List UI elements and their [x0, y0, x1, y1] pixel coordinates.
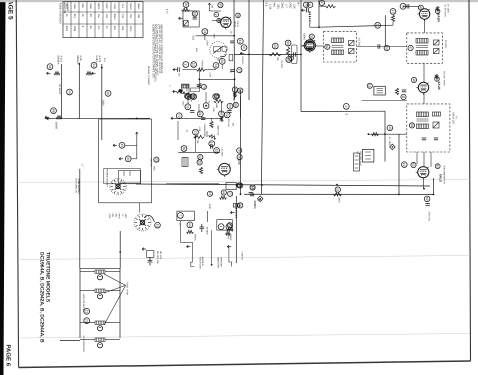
- label 2.2K: [209, 73, 212, 78]
- dial lamp lead 3: [104, 285, 126, 325]
- svg-text:61: 61: [435, 77, 439, 81]
- label L8: [356, 152, 359, 155]
- wire H4: [301, 110, 385, 112]
- filter drop 1: [180, 221, 192, 243]
- label record jack: [359, 152, 362, 167]
- svg-text:30: 30: [184, 3, 188, 7]
- 6BA6 input wire: [301, 45, 304, 47]
- grid ref: [375, 22, 381, 28]
- avc mid ref: [250, 185, 255, 190]
- svg-text:199K: 199K: [89, 3, 92, 9]
- label L7: [81, 164, 84, 167]
- rf res lead: [392, 22, 394, 25]
- label right of V1: [254, 201, 257, 208]
- bass resistor left: [179, 89, 182, 92]
- filter drop 2: [192, 242, 194, 262]
- heater box top: [80, 268, 120, 270]
- T4 core: [417, 119, 429, 121]
- svg-text:71.1: 71.1: [121, 3, 124, 8]
- svg-text:15: 15: [368, 84, 372, 88]
- label amplifier: [217, 257, 220, 268]
- audio wires verticals: [178, 92, 241, 152]
- svg-text:1.5V220: 1.5V220: [66, 2, 69, 12]
- rf amp 6AB4: [417, 9, 429, 21]
- heater wire 8: [108, 339, 120, 341]
- svg-text:AMPLIFIER: AMPLIFIER: [217, 257, 220, 268]
- switch ref S3: [154, 157, 159, 162]
- T1 trimmer 2: [434, 49, 440, 54]
- svg-text:63: 63: [410, 124, 414, 128]
- svg-text:SPEAKER: SPEAKER: [219, 257, 222, 267]
- T2 to T1 wire: [357, 46, 407, 48]
- svg-text:11: 11: [155, 224, 159, 228]
- filter right L: [229, 247, 232, 267]
- svg-text:SOME MODELS: SOME MODELS: [77, 178, 80, 194]
- grid ref small 2: [217, 18, 221, 22]
- resistor R1 ref: [183, 2, 189, 8]
- model list: [39, 252, 45, 343]
- T4 lead right: [430, 152, 432, 167]
- svg-text:+125V: +125V: [254, 201, 257, 208]
- loop lead hatched: [309, 12, 311, 24]
- label RATIO DET: [452, 112, 455, 125]
- T4 ref: [409, 123, 414, 128]
- 6AL5 label ref: [435, 164, 440, 169]
- socket ref D: [51, 108, 57, 114]
- speaker plug pins: [355, 156, 359, 168]
- T2 core: [332, 45, 344, 47]
- T2 winding 2: [332, 50, 344, 55]
- audio ref p: [237, 155, 242, 160]
- svg-text:56: 56: [238, 204, 242, 208]
- svg-text:A-102: A-102: [98, 56, 101, 63]
- loop exit wire: [310, 23, 319, 27]
- svg-text:16: 16: [412, 78, 416, 82]
- svg-text:44: 44: [222, 191, 226, 195]
- L7 drop wire: [79, 169, 81, 269]
- rf res a: [391, 15, 394, 22]
- coil on V1 low: [233, 204, 239, 208]
- svg-text:47: 47: [320, 1, 324, 5]
- svg-text:7: 7: [178, 215, 182, 217]
- svg-text:23: 23: [85, 310, 89, 314]
- audio cap i: [201, 118, 205, 120]
- label FM AM: [241, 56, 244, 63]
- T4 winding 1: [417, 112, 429, 117]
- label 6AW8 lower: [54, 122, 57, 129]
- svg-text:4.7: 4.7: [285, 4, 288, 8]
- socket ref C: [91, 62, 97, 68]
- svg-text:TWO POINT: TWO POINT: [199, 257, 202, 270]
- switch assembly box: [99, 119, 152, 203]
- label DISCRIMINATOR: [442, 166, 445, 185]
- label SET IN: [149, 158, 152, 166]
- svg-text:4: 4: [308, 4, 312, 6]
- svg-text:680K: 680K: [215, 103, 218, 109]
- svg-text:19: 19: [192, 63, 196, 67]
- label tube heaters: [126, 282, 129, 295]
- vertical wire V2: [248, 0, 250, 100]
- label 6AB4: [437, 14, 441, 22]
- filament wire C: [101, 64, 103, 140]
- svg-text:89CV: 89CV: [113, 14, 116, 20]
- label 1 meg vol: [217, 125, 220, 137]
- label 15K: [196, 140, 199, 144]
- svg-text:MC: MC: [97, 26, 100, 30]
- B plus cap: [250, 194, 254, 196]
- svg-text:20: 20: [85, 319, 89, 323]
- tone wire down: [218, 58, 222, 69]
- rj ref 2: [402, 162, 408, 168]
- svg-text:.0047: .0047: [182, 101, 185, 107]
- cap ref C2: [192, 11, 197, 16]
- table caption: [59, 3, 62, 25]
- B+ bus wire: [244, 193, 434, 195]
- rf ref b: [400, 3, 406, 9]
- plate wire: [204, 34, 206, 40]
- audio resistor c: [233, 92, 236, 97]
- bass ref 4: [215, 94, 220, 99]
- resistor R40: [226, 228, 233, 231]
- svg-text:470K: 470K: [198, 127, 201, 132]
- svg-text:21: 21: [336, 188, 340, 192]
- tone drop wire: [198, 70, 200, 84]
- svg-text:CONDENSER: CONDENSER: [203, 124, 206, 138]
- vertical wire V1 mid: [240, 90, 242, 194]
- svg-text:47K 1W: 47K 1W: [227, 119, 230, 128]
- volume control R7: [210, 42, 226, 58]
- filter ref 3: [218, 224, 224, 230]
- input box: [183, 11, 199, 27]
- page 6 right border: [469, 0, 471, 361]
- svg-text:86C5: 86C5: [97, 3, 100, 9]
- T1 trimmer 1: [434, 40, 440, 45]
- svg-text:25: 25: [198, 161, 202, 165]
- tube label C2: [98, 56, 101, 63]
- vertical wire V1 top: [233, 0, 236, 100]
- comp ref V1 low: [238, 88, 243, 93]
- filament bus wire: [45, 117, 150, 119]
- svg-text:6U8 A: 6U8 A: [95, 56, 98, 63]
- label 1.5mg: [227, 233, 230, 240]
- audio ref e: [203, 103, 209, 109]
- svg-text:8301: 8301: [65, 26, 68, 32]
- T1 core: [416, 46, 428, 48]
- svg-text:10.7MC: 10.7MC: [358, 38, 361, 47]
- heater wire 6: [108, 322, 120, 324]
- 6BA6 ref: [309, 34, 314, 39]
- svg-text:6.8K: 6.8K: [212, 108, 215, 113]
- heater box right: [119, 269, 121, 338]
- svg-text:1 MEG: 1 MEG: [193, 234, 196, 241]
- tone in cap: [178, 67, 180, 71]
- filter bottom L: [191, 262, 195, 266]
- svg-text:SW1: SW1: [152, 166, 155, 172]
- SW1B stub wire: [139, 203, 141, 213]
- AVC bus wire: [136, 184, 430, 186]
- label 40 MFD: [205, 227, 208, 235]
- svg-text:TREBLE: TREBLE: [201, 60, 204, 69]
- heater V3: [92, 321, 108, 331]
- treble resistor: [197, 68, 205, 71]
- record jack drop wire: [384, 111, 386, 161]
- svg-text:62: 62: [425, 197, 429, 201]
- svg-text:6AB47025: 6AB47025: [63, 2, 66, 14]
- label SW1: [152, 166, 155, 172]
- svg-text:1: 1: [184, 64, 188, 66]
- on-off arrow: [142, 248, 146, 251]
- label 220K: [213, 34, 216, 40]
- label 4.7K by notes: [166, 9, 169, 14]
- heater box left: [79, 269, 81, 338]
- audio extra label 2: [198, 127, 201, 132]
- label H7: [178, 223, 181, 227]
- audio ref AF: [209, 141, 215, 147]
- label 1K: [196, 84, 199, 87]
- audio ref g: [233, 102, 238, 107]
- label +150V: [192, 35, 195, 41]
- schematic notes: [152, 24, 163, 82]
- audio ref h: [176, 113, 182, 119]
- svg-text:TUBE VOLTAGES: TUBE VOLTAGES: [59, 3, 62, 25]
- svg-text:85: 85: [193, 12, 197, 16]
- svg-text:12K: 12K: [232, 123, 235, 127]
- label zone: [253, 200, 256, 210]
- svg-text:84: 84: [214, 95, 218, 99]
- svg-text:19: 19: [402, 163, 406, 167]
- svg-text:308.: 308.: [81, 3, 84, 8]
- svg-text:73: 73: [202, 85, 206, 89]
- osc vertical wire: [318, 0, 320, 27]
- svg-text:K10: K10: [121, 14, 124, 19]
- pw ref 1: [207, 191, 212, 196]
- svg-text:M6VK: M6VK: [129, 3, 132, 10]
- plus mark below notes: [168, 85, 172, 87]
- choke ref: [197, 160, 202, 165]
- svg-text:2.2K: 2.2K: [209, 73, 212, 78]
- audio top resistor: [176, 90, 185, 93]
- bass coil hatch: [182, 85, 189, 88]
- svg-text:AC INTERLOCK: AC INTERLOCK: [82, 336, 85, 353]
- filter ref 1: [178, 213, 184, 219]
- svg-text:89: 89: [238, 89, 242, 93]
- switch ref S2: [125, 156, 131, 162]
- label POWER SOCKET: [106, 169, 109, 188]
- arrow D: [45, 116, 49, 119]
- svg-text:K9K.: K9K.: [121, 26, 124, 32]
- svg-text:14: 14: [251, 186, 255, 190]
- audio extra label 5: [185, 130, 188, 133]
- audio slant resistor: [208, 134, 217, 140]
- label speaker: [219, 257, 222, 267]
- tube label A: [57, 56, 60, 65]
- legend col 5: [121, 212, 124, 217]
- svg-text:240V: 240V: [102, 100, 105, 106]
- svg-text:SW2: SW2: [281, 3, 284, 9]
- audio ref j: [219, 111, 225, 117]
- PAGE 5 label: [7, 0, 14, 20]
- svg-text:+: +: [168, 85, 172, 87]
- svg-text:+ 125V B: + 125V B: [240, 251, 243, 261]
- label AC interlock: [82, 336, 85, 353]
- rf top wire: [403, 5, 419, 7]
- pin 2 label: [345, 114, 349, 116]
- svg-text:B+ 140V: B+ 140V: [388, 137, 391, 146]
- mid ref 3: [286, 57, 292, 63]
- svg-text:49: 49: [120, 144, 124, 148]
- heater ref H2: [105, 90, 111, 96]
- volume wiper: [220, 53, 226, 56]
- svg-text:14: 14: [188, 223, 192, 227]
- svg-text:B+: B+: [297, 3, 300, 7]
- svg-text:37: 37: [242, 46, 246, 50]
- audio ref o: [198, 155, 203, 160]
- svg-text:96: 96: [238, 184, 242, 188]
- au6 bottom wire: [362, 100, 408, 102]
- cap ref C5: [237, 38, 243, 44]
- loop ref 2: [308, 2, 313, 7]
- pw ref 3: [228, 191, 233, 196]
- socket ref A: [47, 64, 53, 70]
- svg-text:- FM: - FM: [111, 212, 114, 217]
- label saving note 2: [77, 178, 80, 194]
- arrow C: [92, 72, 96, 75]
- plug ref P1: [84, 308, 90, 314]
- T2-T1 cap: [378, 44, 380, 48]
- svg-text:FM ANT: FM ANT: [280, 60, 283, 69]
- audio cap f: [227, 111, 231, 113]
- svg-text:20: 20: [376, 24, 380, 28]
- label 21V: [103, 58, 106, 63]
- svg-text:24: 24: [203, 30, 207, 34]
- svg-text:MORE B+: MORE B+: [201, 257, 204, 267]
- label 47K top: [195, 48, 198, 52]
- top scan edge: [0, 0, 478, 2]
- svg-text:DC1964A, B, DC2942A, B, DC2944: DC1964A, B, DC2942A, B, DC2944A, B: [39, 252, 45, 343]
- bass ref 1: [185, 94, 190, 99]
- tone bus wire: [199, 78, 234, 80]
- svg-text:754: 754: [97, 14, 100, 19]
- legend col 3: [114, 212, 117, 217]
- svg-text:SEL: SEL: [277, 4, 280, 10]
- rj ref: [387, 125, 393, 131]
- TRUETONE MODELS title: [45, 252, 51, 303]
- svg-text:1 MEG: 1 MEG: [229, 234, 232, 241]
- filter 40mfd cap: [199, 224, 204, 232]
- tube label A2: [60, 56, 63, 63]
- svg-text:597: 597: [113, 26, 116, 31]
- tube ref out: [237, 148, 242, 153]
- inner chassis box outer: [104, 169, 141, 184]
- label DC BAL: [220, 149, 223, 158]
- mid resistor: [269, 53, 281, 56]
- label 180K: [206, 40, 209, 46]
- svg-text:1318: 1318: [73, 3, 76, 9]
- label 470K pw: [208, 204, 211, 210]
- svg-text:FM DET AMPL: FM DET AMPL: [443, 71, 446, 87]
- svg-text:17: 17: [237, 68, 241, 72]
- filter mid drop: [211, 230, 213, 265]
- svg-text:AC BATT: AC BATT: [58, 84, 61, 95]
- parts list table: [63, 2, 143, 38]
- b+ diamond: [390, 144, 396, 150]
- cap near V1: [231, 70, 235, 72]
- svg-text:- OSC: - OSC: [108, 212, 111, 218]
- filter can 2 box: [217, 220, 233, 230]
- cap ref C6: [241, 45, 247, 51]
- filter bleeder 2: [225, 232, 230, 235]
- SW1B slider rect: [229, 54, 233, 61]
- 6AB4 label ref: [435, 9, 440, 14]
- IF coil can: [292, 45, 298, 64]
- junction dots on buses: [136, 54, 435, 196]
- svg-text:OSC: OSC: [289, 3, 292, 9]
- heater wire 7: [80, 339, 92, 341]
- legend col 6: [124, 212, 127, 218]
- drop junction dot: [384, 133, 386, 135]
- tone arrow: [173, 68, 177, 71]
- grid top wire: [209, 10, 221, 12]
- resistor RD: [56, 116, 62, 119]
- arrow S2: [119, 158, 123, 161]
- inner chassis box: [118, 171, 140, 183]
- label 47K 1W: [227, 119, 230, 128]
- label T2: [358, 38, 361, 47]
- speaker plug box: [354, 153, 360, 171]
- mid cap y54: [294, 52, 296, 56]
- svg-text:0996: 0996: [73, 26, 76, 32]
- svg-text:270K 5%: 270K 5%: [427, 212, 430, 221]
- resistor R40 ref: [227, 223, 232, 228]
- grid wire: [212, 20, 221, 22]
- filament wire B: [78, 63, 80, 119]
- svg-text:6AW8 A: 6AW8 A: [57, 56, 60, 65]
- switch ref S4: [155, 222, 161, 228]
- fold crease line 1: [19, 180, 470, 183]
- svg-text:UNLESS NOTED. CONTROLS AT MINI: UNLESS NOTED. CONTROLS AT MINIMUM.: [160, 24, 163, 74]
- svg-text:6BN6 A: 6BN6 A: [76, 56, 79, 65]
- svg-text:82: 82: [182, 147, 186, 151]
- label B+ 140: [388, 137, 391, 146]
- svg-text:91: 91: [92, 64, 96, 68]
- audio extra wire 2: [198, 104, 200, 113]
- svg-text:30: 30: [218, 3, 222, 7]
- cathode box ref: [237, 183, 242, 188]
- svg-text:54: 54: [67, 90, 71, 94]
- osc wire stub: [319, 5, 326, 7]
- label .01: [230, 31, 233, 35]
- wire S2: [131, 158, 137, 160]
- 6AU6 ref: [411, 77, 416, 82]
- grid feed wire: [319, 25, 393, 27]
- label 680K: [215, 103, 218, 109]
- svg-text:A-90: A-90: [79, 56, 82, 62]
- record jack box: [363, 149, 374, 162]
- T2-T1 ref: [384, 45, 389, 50]
- legend col 1: [108, 212, 111, 218]
- label 1 meg b: [229, 234, 232, 241]
- svg-text:47K: 47K: [189, 98, 192, 102]
- pw ref 2: [221, 190, 226, 195]
- heater ref H1: [67, 89, 73, 95]
- label two point: [199, 257, 202, 270]
- heater wire 3: [80, 290, 92, 292]
- IF amp 6AU6: [416, 82, 428, 94]
- T1 ref: [408, 45, 413, 50]
- SW1B wiper arm: [144, 215, 155, 222]
- fold crease line 2: [19, 256, 470, 260]
- audio resistor j: [220, 117, 223, 122]
